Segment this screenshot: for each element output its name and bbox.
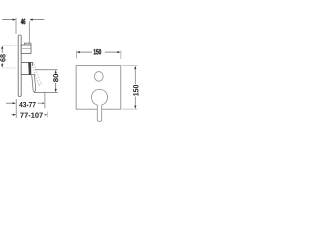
dim 80 extension line bottom: [34, 91, 58, 93]
lever dashed (swung position): [32, 64, 41, 86]
dim 150 right dimension line upper segment: [134, 69, 136, 84]
dim 150 top arrowhead right (pointing right): [117, 51, 120, 53]
dim 77-107 arrowhead left (pointing right): [13, 114, 16, 116]
dim 68 dimension line upper segment: [1, 49, 3, 53]
dim 80 arrowhead top (pointing up): [55, 70, 57, 73]
dim 43-77 value label "43-77": [19, 102, 35, 107]
dim 150 (top): [76, 49, 121, 59]
dim 43-77 arrowhead right (pointing right): [42, 102, 45, 104]
dim 46 leader line right: [33, 19, 45, 21]
dim 46 (top): [2, 18, 44, 43]
mixer cartridge hub (side view): [21, 62, 33, 74]
dim 150 (right, vertical): [122, 66, 138, 110]
shared extension line left (dims 43-77 / 77-107): [15, 99, 17, 118]
dim 150 top dimension line left segment: [80, 51, 92, 53]
dim 150 top arrowhead left (pointing left): [77, 51, 80, 53]
dim 80 dimension line upper segment: [55, 72, 57, 75]
dim 68 arrowhead bottom (pointing down): [1, 64, 3, 67]
dim 77-107 leader line left: [11, 114, 13, 116]
dim 68 value label "68" (rotated): [0, 54, 5, 62]
diverter cap strip: [24, 43, 31, 45]
dim 43-77 arrowhead left (pointing right): [13, 102, 16, 104]
dim 150 right extension line top: [122, 65, 137, 67]
diverter cap knurling: [26, 43, 30, 45]
dim 46 arrowhead left (pointing right): [13, 19, 16, 21]
dim 150 right extension line bottom: [122, 108, 137, 110]
dim 46 extension line left: [15, 18, 17, 34]
dim 150 right value label "150" (rotated): [133, 85, 138, 96]
dim 77-107 value label "77-107": [20, 113, 43, 118]
dim 150 top extension line left: [75, 51, 77, 59]
dim 77-107 (bottom row 2): [11, 112, 47, 118]
diverter button (front view): [94, 72, 103, 82]
dim 80 value label "80" (rotated): [53, 74, 58, 82]
dim 43-77 (bottom row 1): [6, 92, 45, 118]
dim 68 dimension line lower segment: [1, 63, 3, 64]
dim 150 top value label "150": [94, 49, 101, 54]
lever handle (front view): disc + stem: [91, 89, 107, 121]
dim 150 top dimension line right segment: [105, 51, 118, 53]
dim 150 right arrowhead top (pointing up): [134, 66, 136, 69]
dim 77-107 extension line right: [47, 112, 49, 118]
dim 150 right dimension line lower segment: [134, 97, 136, 106]
dim 46 extension line right: [28, 21, 30, 43]
dim 43-77 dimension line right segment: [38, 102, 43, 104]
dim 150 right arrowhead bottom (pointing down): [134, 106, 136, 109]
diverter internal line: [21, 48, 31, 50]
dim 68 dashed extension line bottom: [4, 67, 22, 69]
dim 77-107 arrowhead right (pointing right): [45, 114, 48, 116]
dim 150 top extension line right: [120, 50, 122, 59]
dim 46 arrowhead right (pointing left): [29, 19, 32, 21]
diverter knob block (side view): [21, 45, 31, 53]
escutcheon plate (front view, 150x150): [76, 66, 121, 110]
dim 80 arrowhead bottom (pointing down): [55, 89, 57, 92]
dim 46 value label "46": [21, 19, 25, 25]
dim 46 leader line left: [2, 19, 13, 21]
escutcheon plate P1 (side view, edge-on): [18, 35, 21, 96]
dim 80 extension line top: [35, 69, 58, 71]
dim 68 (left, vertical): [0, 45, 21, 68]
lever neck (dark, side view): [28, 62, 31, 75]
dim 68 arrowhead top (pointing up): [1, 46, 3, 49]
dim 43-77 leader line left: [6, 102, 13, 104]
dim 43-77 extension line right: [44, 92, 46, 109]
lever grip: [32, 74, 36, 91]
dim 68 dashed extension line top: [4, 44, 22, 46]
dim 80 (right of lever, vertical): [34, 70, 58, 93]
dim 80 dimension line lower segment: [55, 83, 57, 89]
